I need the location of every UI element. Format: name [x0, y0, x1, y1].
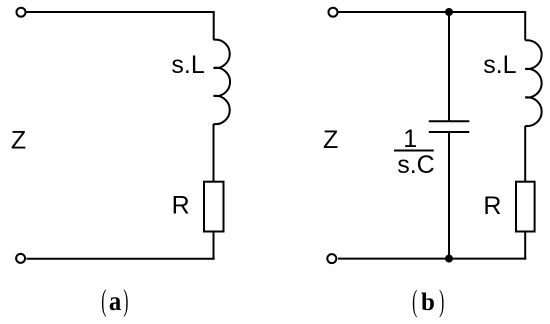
caption (b) — [412, 284, 444, 318]
wire (a) resistor-to-bottom — [213, 232, 215, 260]
inductor s.L (a) — [214, 40, 231, 125]
svg-text:): ) — [123, 284, 128, 318]
svg-text:R: R — [172, 192, 190, 220]
capacitor C (b) bottom plate — [429, 131, 470, 133]
wire (a) inductor-to-resistor — [213, 124, 215, 182]
svg-text:s.C: s.C — [397, 151, 435, 179]
svg-text:s.L: s.L — [483, 51, 516, 79]
terminal (b) top-left — [329, 8, 338, 17]
wire (b) right upper — [524, 12, 526, 40]
svg-text:(: ( — [412, 284, 417, 318]
wire (b) capacitor upper — [448, 12, 450, 121]
capacitor C (b) top plate — [429, 120, 470, 122]
svg-text:a: a — [109, 286, 121, 316]
svg-text:): ) — [439, 284, 444, 318]
wire (b) capacitor lower — [448, 132, 450, 259]
svg-text:R: R — [483, 192, 501, 220]
svg-text:Z: Z — [11, 126, 26, 154]
terminal (a) bottom-left — [16, 254, 25, 263]
wire (a) bottom — [27, 258, 215, 260]
resistor R2 (b) — [516, 182, 535, 232]
junction node bottom (b) — [445, 255, 453, 263]
svg-text:b: b — [421, 289, 435, 316]
svg-text:s.L: s.L — [171, 51, 204, 79]
svg-text:Z: Z — [323, 126, 338, 154]
inductor s.L (b) — [525, 40, 541, 126]
label 1/s.C fraction bar (b) — [394, 150, 434, 152]
caption (a) — [101, 284, 128, 318]
wire (a) top — [27, 11, 215, 13]
wire (b) resistor-to-bottom — [524, 232, 526, 260]
wire (b) inductor-to-resistor — [524, 126, 526, 182]
terminal (a) top-left — [17, 8, 26, 17]
resistor R1 (a) — [204, 182, 224, 232]
svg-text:1: 1 — [403, 125, 417, 153]
terminal (b) bottom-left — [327, 254, 336, 263]
wire (b) top — [339, 11, 527, 13]
junction node top (b) — [445, 8, 453, 16]
wire (b) bottom — [338, 258, 526, 260]
svg-text:(: ( — [101, 284, 106, 318]
wire (a) right upper — [213, 12, 215, 40]
